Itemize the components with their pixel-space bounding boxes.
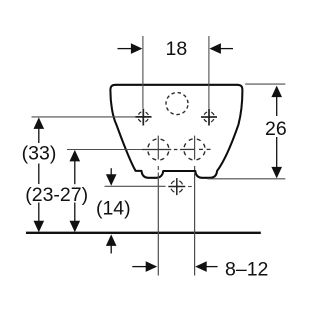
svg-text:8–12: 8–12: [225, 258, 268, 280]
drain crosshair right dash: [188, 186, 192, 188]
dim (23-27) top arrow: [70, 150, 81, 162]
dim 18 left arrow: [118, 43, 143, 54]
bolt hole right dashed circle: [182, 137, 207, 162]
dim (23-27) vertical line: [74, 158, 76, 224]
dim (33) top arrow: [34, 117, 45, 128]
dim (14) top arrow: [106, 168, 117, 186]
dim (23-27) bottom arrow: [70, 221, 81, 233]
dim 18 right arrow: [209, 43, 233, 54]
dim (33) bottom arrow: [34, 221, 45, 233]
dim (14) bottom arrow: [106, 234, 117, 253]
supply hole dashed circle (top center): [164, 91, 189, 116]
dim 26 vertical line: [276, 96, 278, 168]
svg-text:18: 18: [166, 38, 188, 60]
fixing hole crosshair left: [135, 109, 151, 126]
fixing hole crosshair right: [201, 109, 217, 126]
dim (33) vertical line: [38, 128, 40, 224]
dim 26 top arrow: [271, 86, 282, 98]
dim 26 extension line bottom: [208, 178, 286, 180]
bolt hole left dashed circle: [146, 137, 171, 162]
ext line (23-27): [67, 149, 142, 151]
dim 18 extension line right: [208, 36, 210, 108]
bidet body outline: [110, 85, 242, 178]
dim 8-12 left arrow: [132, 261, 157, 272]
svg-text:(14): (14): [96, 198, 131, 220]
svg-text:26: 26: [265, 118, 287, 140]
dim 26 extension line top: [245, 83, 285, 85]
bolt hole right vertical centerline / 8-12 ext line right: [194, 136, 196, 276]
dim 26 bottom arrow: [271, 167, 282, 179]
bolt holes horizontal centerline: [142, 148, 211, 150]
ext line (14): [105, 185, 166, 187]
bolt hole left vertical centerline / 8-12 ext line left: [157, 136, 159, 276]
drain crosshair (bottom center): [168, 178, 185, 195]
dim 8-12 right arrow: [195, 261, 217, 272]
svg-text:(33): (33): [22, 143, 57, 165]
dim 18 extension line left: [142, 36, 144, 108]
ext line (33): [32, 116, 136, 118]
floor line: [26, 232, 261, 234]
svg-text:(23-27): (23-27): [25, 184, 88, 206]
